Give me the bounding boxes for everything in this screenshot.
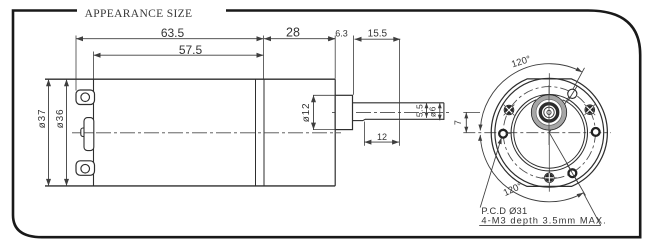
svg-text:6.3: 6.3 — [335, 29, 348, 39]
svg-text:12: 12 — [377, 132, 387, 142]
svg-text:5.5: 5.5 — [414, 104, 424, 117]
svg-text:7: 7 — [453, 120, 463, 125]
svg-text:4-M3 depth 3.5mm MAX.: 4-M3 depth 3.5mm MAX. — [481, 216, 606, 226]
svg-text:ø36: ø36 — [55, 109, 66, 129]
svg-text:57.5: 57.5 — [179, 43, 203, 57]
svg-text:120°: 120° — [510, 54, 532, 71]
svg-text:ø37: ø37 — [37, 109, 48, 129]
svg-text:APPEARANCE SIZE: APPEARANCE SIZE — [85, 8, 193, 20]
svg-text:ø12: ø12 — [301, 103, 312, 123]
svg-text:63.5: 63.5 — [161, 26, 185, 40]
svg-text:P.C.D Ø31: P.C.D Ø31 — [481, 206, 527, 216]
svg-text:ø6: ø6 — [428, 106, 438, 117]
svg-text:28: 28 — [286, 25, 300, 39]
svg-text:15.5: 15.5 — [368, 28, 388, 39]
